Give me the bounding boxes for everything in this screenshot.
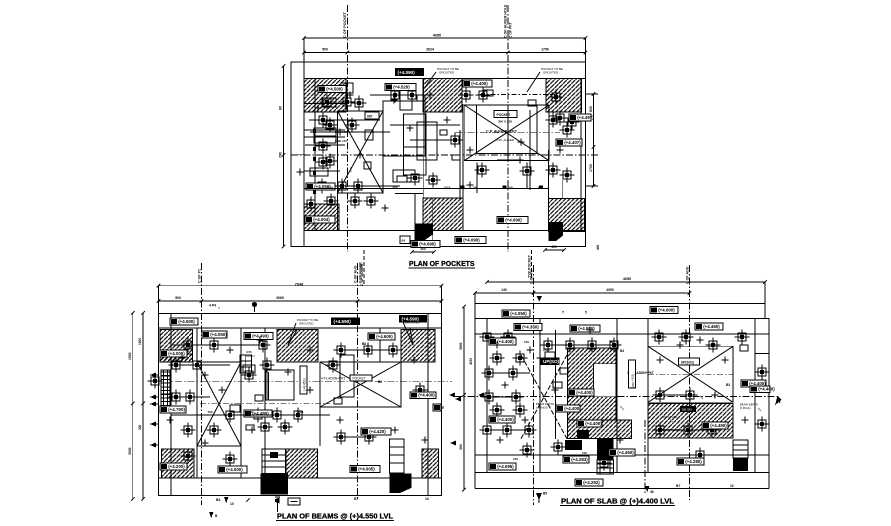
svg-text:C OF AUGER: C OF AUGER [359,262,363,283]
svg-text:(+4.600): (+4.600) [376,334,393,339]
svg-text:500: 500 [175,296,181,300]
svg-text:(+4.090): (+4.090) [505,218,522,223]
svg-text:C OF AUG: C OF AUG [354,265,358,283]
svg-text:(+4.090): (+4.090) [463,238,480,243]
svg-text:(+4.450): (+4.450) [617,450,634,455]
svg-text:B2: B2 [378,380,382,384]
svg-text:BM 350: BM 350 [682,408,692,412]
svg-text:(+4.400): (+4.400) [471,81,488,86]
svg-text:7040: 7040 [295,283,303,287]
svg-text:(+4.420): (+4.420) [369,429,386,434]
svg-text:(+4.400): (+4.400) [418,393,435,398]
svg-text:1750: 1750 [541,48,549,52]
svg-text:(+4.004): (+4.004) [313,217,330,222]
svg-text:R Pkt(A): R Pkt(A) [740,406,751,410]
svg-text:700: 700 [207,410,212,414]
svg-text:C OF PKT: C OF PKT [509,21,513,38]
svg-text:B7: B7 [676,484,680,488]
svg-text:(+4.095): (+4.095) [497,464,514,469]
svg-text:B5: B5 [430,342,434,346]
svg-text:GROUTED: GROUTED [299,322,313,326]
svg-text:PLAN OF SLAB @ (+)4.400 LVL: PLAN OF SLAB @ (+)4.400 LVL [561,497,675,506]
svg-text:(+4.400): (+4.400) [758,387,775,392]
svg-text:(xxx +3.5): (xxx +3.5) [631,374,635,388]
svg-text:b. TOP PKT(B): b. TOP PKT(B) [662,428,680,432]
svg-text:140: 140 [501,288,507,292]
svg-text:5: 5 [585,311,587,315]
svg-text:(+4.280): (+4.280) [685,459,702,464]
svg-text:150: 150 [513,457,518,461]
svg-text:(+4.400): (+4.400) [576,390,593,395]
svg-text:1700: 1700 [589,164,593,172]
svg-text:150: 150 [582,451,587,455]
svg-text:(+4.450): (+4.450) [303,378,307,391]
svg-text:(+4.520): (+4.520) [393,85,410,90]
svg-text:BMK 170: BMK 170 [335,139,347,143]
svg-text:4 PL ADDN+PKT: 4 PL ADDN+PKT [321,377,345,381]
svg-text:800: 800 [589,106,593,112]
svg-text:(+4.500): (+4.500) [326,87,343,92]
svg-text:4150: 4150 [469,358,473,365]
svg-text:NS. 4.9 CTD: NS. 4.9 CTD [662,415,677,419]
svg-text:PLAN OF POCKETS: PLAN OF POCKETS [409,259,475,268]
svg-text:1525: 1525 [543,348,550,352]
svg-text:POCKET: POCKET [353,377,366,381]
svg-text:C OF POCKET: C OF POCKET [343,11,347,38]
svg-text:4050: 4050 [433,34,441,38]
svg-text:4 P4: 4 P4 [209,304,216,308]
svg-text:GROUTED: GROUTED [543,71,559,75]
svg-text:(+4.050): (+4.050) [510,311,527,316]
svg-text:ADDN: ADDN [246,354,255,358]
svg-text:1500: 1500 [138,338,142,345]
svg-text:1014: 1014 [444,186,451,190]
svg-text:(+4.400): (+4.400) [497,417,514,422]
svg-text:(+4.?00): (+4.?00) [168,407,185,412]
svg-text:(+4.000): (+4.000) [168,351,185,356]
svg-text:(+4.090): (+4.090) [398,70,416,75]
svg-text:170: 170 [349,167,353,172]
svg-text:790: 790 [279,152,283,158]
svg-text:(+4.500): (+4.500) [178,319,195,324]
svg-text:80: 80 [279,106,283,110]
svg-text:10: 10 [230,502,234,506]
svg-text:B6: B6 [610,340,614,344]
svg-text:150: 150 [247,410,252,414]
svg-text:C OF P1: C OF P1 [530,270,534,284]
svg-text:4050: 4050 [606,288,614,292]
svg-text:150: 150 [524,340,529,344]
svg-text:B4: B4 [402,239,406,243]
svg-text:(+4.400): (+4.400) [564,406,581,411]
svg-text:3600: 3600 [459,342,463,350]
svg-text:46: 46 [650,490,654,494]
svg-text:4 NO. AUGER: 4 NO. AUGER [495,138,515,142]
svg-text:3060: 3060 [276,296,284,300]
svg-text:(+4.292): (+4.292) [583,480,600,485]
svg-text:400: 400 [420,247,426,251]
svg-text:400: 400 [596,244,600,250]
svg-text:(+4.590): (+4.590) [334,319,352,324]
svg-text:(+4.400): (+4.400) [497,339,514,344]
svg-text:10: 10 [425,497,429,501]
svg-text:(+4.000): (+4.000) [226,467,243,472]
svg-text:400: 400 [551,245,557,249]
svg-text:(+4.497): (+4.497) [577,115,594,120]
svg-text:C OF AUGER HOLE: C OF AUGER HOLE [504,4,508,38]
svg-text:1500: 1500 [128,352,132,360]
svg-text:300: 300 [459,444,463,450]
svg-text:(+4.493): (+4.493) [252,334,269,339]
svg-text:10: 10 [730,484,734,488]
svg-text:(+4.590): (+4.590) [402,317,420,322]
svg-text:B7: B7 [354,497,358,501]
svg-text:2624: 2624 [426,48,434,52]
svg-text:UP(SO2): UP(SO2) [681,361,694,365]
svg-text:997: 997 [367,115,373,119]
svg-text:PLAN OF BEAMS @ (+)4.550 LVL: PLAN OF BEAMS @ (+)4.550 LVL [277,512,394,521]
svg-text:(+4.283): (+4.283) [571,457,588,462]
svg-text:350 X 350: 350 X 350 [498,120,512,124]
svg-text:4050: 4050 [623,277,631,281]
svg-text:1014: 1014 [297,410,304,414]
svg-text:(+4.460): (+4.460) [703,324,720,329]
svg-text:B5: B5 [543,492,547,496]
svg-text:(+4.090): (+4.090) [419,242,436,247]
svg-text:C OF P1: C OF P1 [198,269,202,283]
svg-text:B3: B3 [726,383,730,387]
svg-text:900: 900 [507,186,512,190]
svg-text:(+4.400): (+4.400) [749,381,766,386]
svg-text:C.P. AUGER+PKT: C.P. AUGER+PKT [486,130,518,134]
svg-text:UP(SO): UP(SO) [543,359,560,364]
svg-text:C OF AUG: C OF AUG [686,266,690,284]
svg-text:(+4.005): (+4.005) [358,467,375,472]
svg-text:B4: B4 [216,498,220,502]
svg-text:B6: B6 [362,342,366,346]
svg-text:(+4.400): (+4.400) [585,421,602,426]
svg-text:(+4.000): (+4.000) [658,308,675,313]
svg-text:(+4.050): (+4.050) [210,332,227,337]
svg-text:500: 500 [322,48,328,52]
svg-text:B4: B4 [620,349,624,353]
svg-text:(+4.200): (+4.200) [168,464,185,469]
svg-text:400: 400 [392,186,397,190]
svg-text:L 750x35: L 750x35 [536,406,548,410]
svg-text:3000: 3000 [128,447,132,455]
svg-text:(+4.350): (+4.350) [522,325,539,330]
svg-text:(+4.407): (+4.407) [564,140,581,145]
svg-text:GROUTED: GROUTED [439,71,455,75]
svg-text:(+4.490): (+4.490) [710,423,727,428]
svg-text:300: 300 [138,424,142,430]
svg-text:700: 700 [327,186,332,190]
